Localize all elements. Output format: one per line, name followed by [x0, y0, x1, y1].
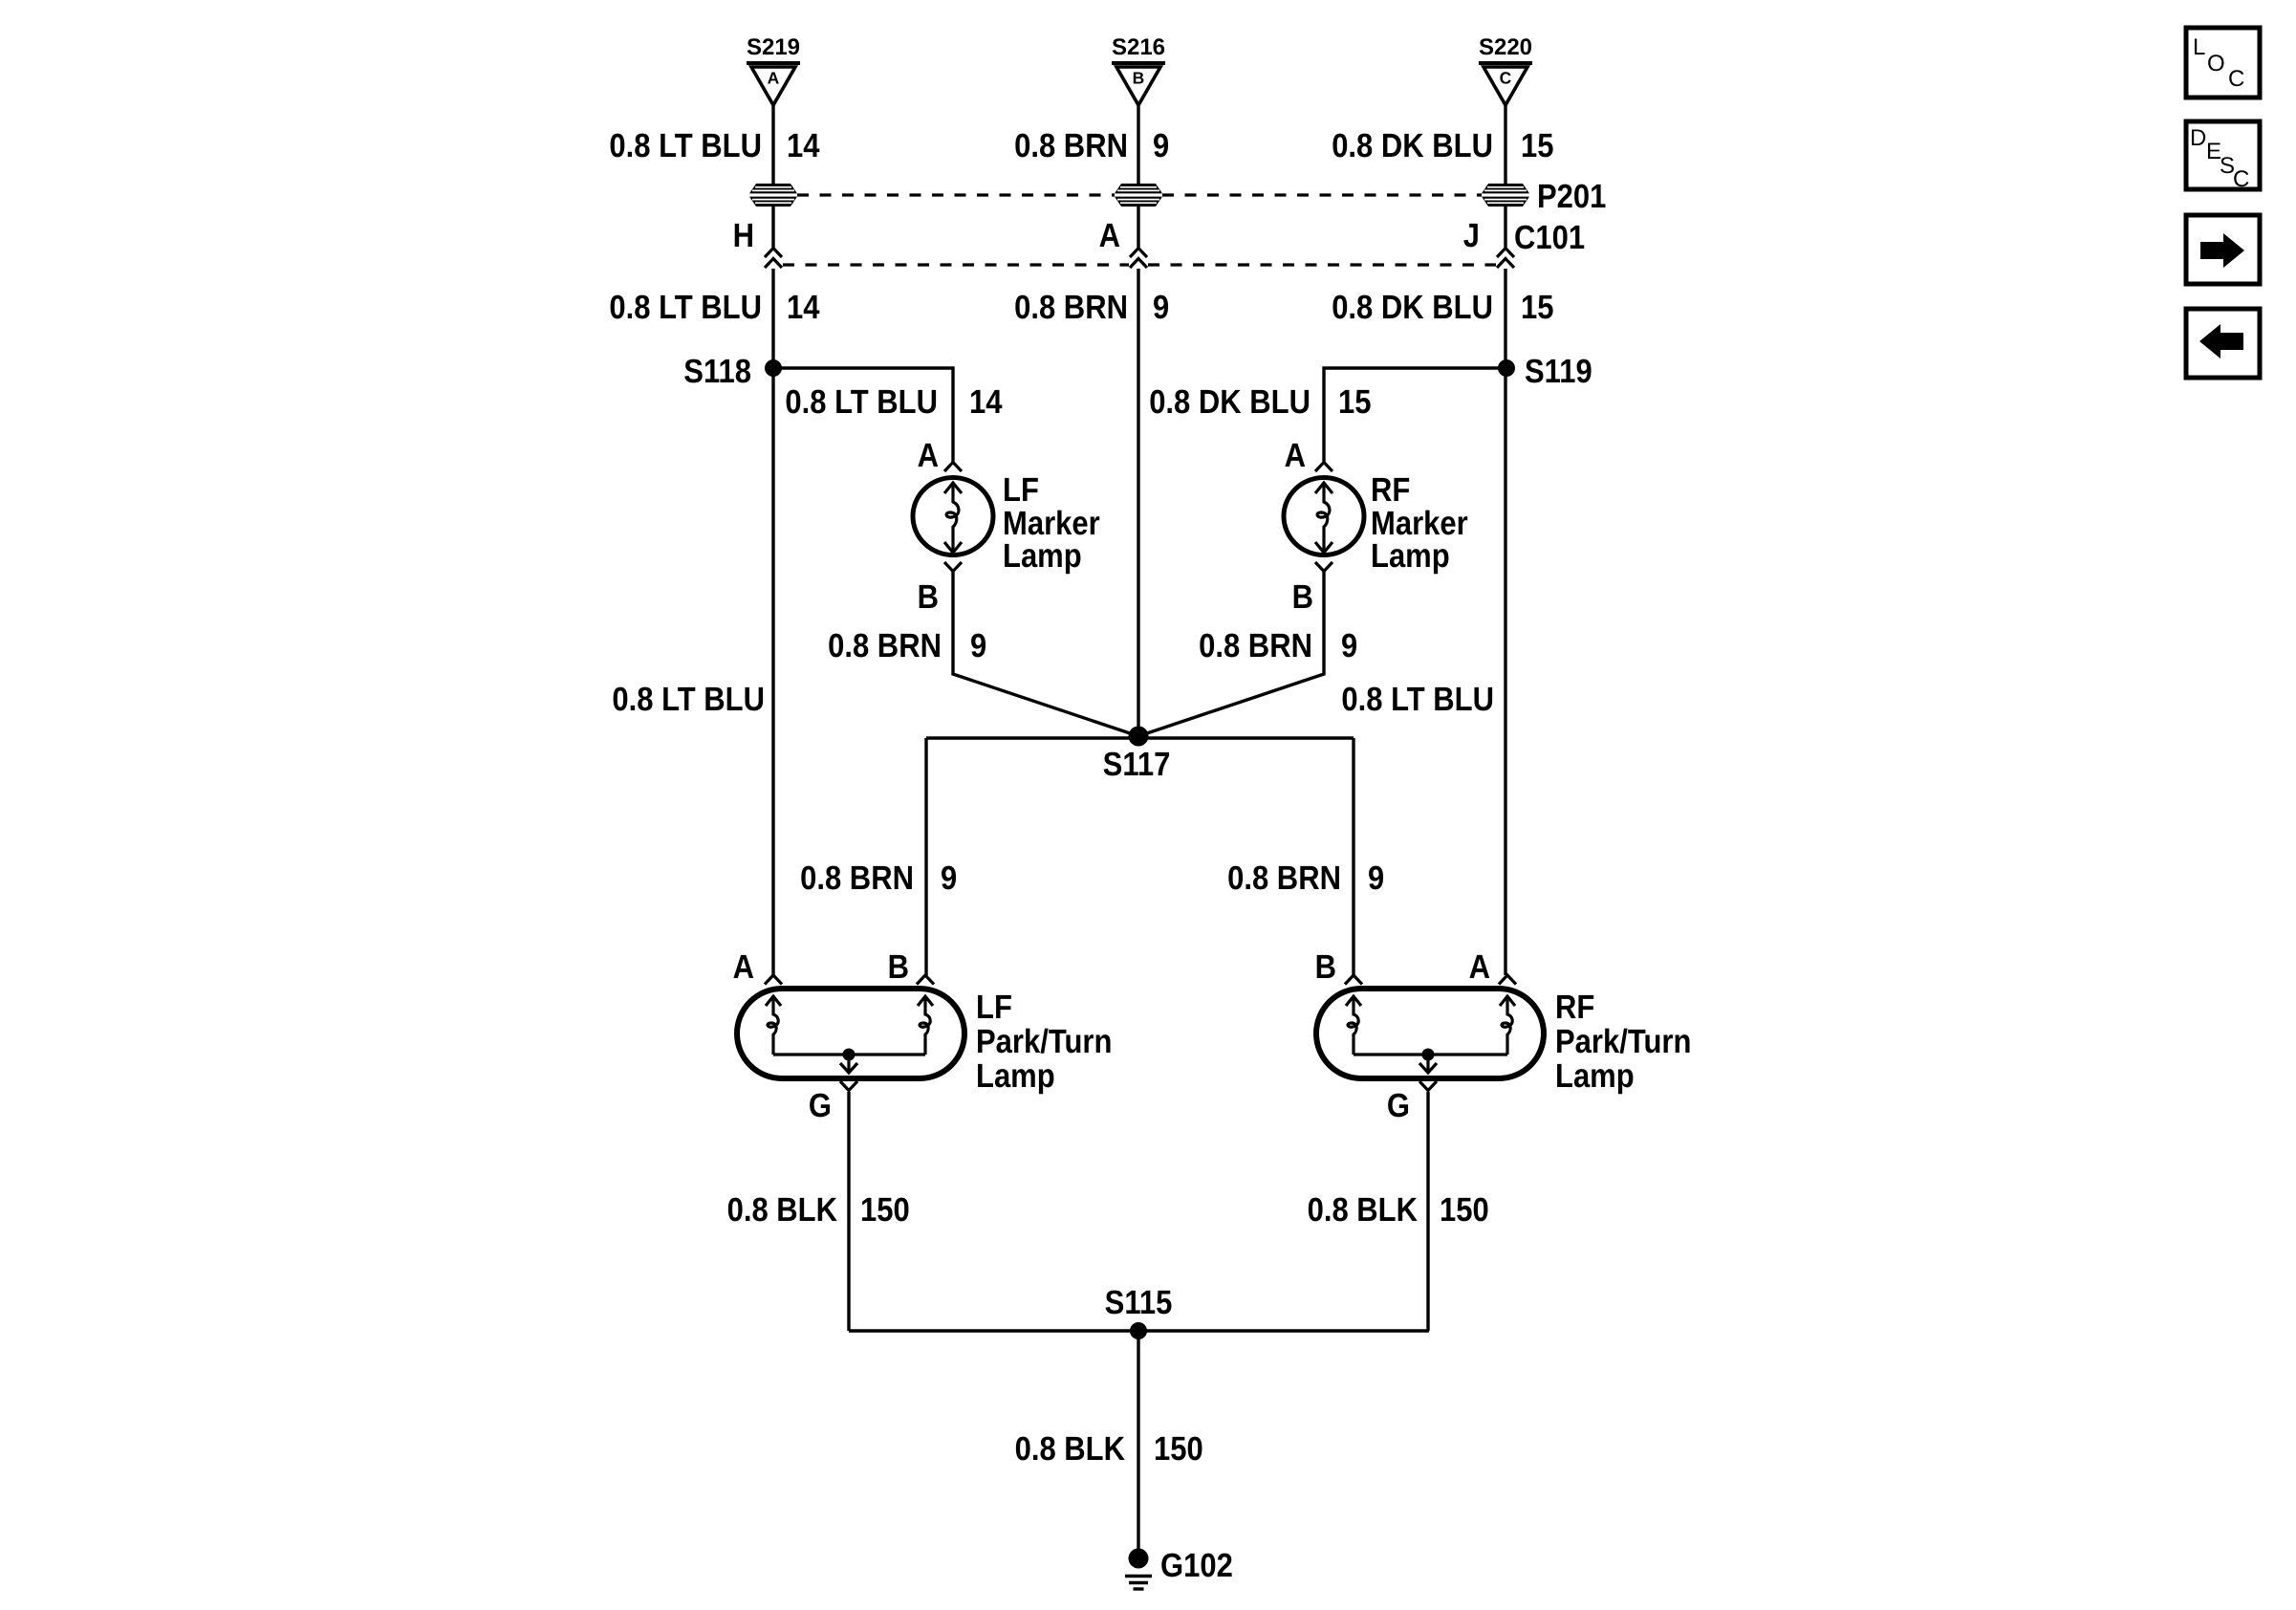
svg-text:15: 15: [1521, 289, 1554, 326]
svg-text:Park/Turn: Park/Turn: [976, 1023, 1112, 1060]
svg-text:P201: P201: [1537, 178, 1606, 215]
svg-text:RF: RF: [1371, 471, 1410, 509]
svg-text:150: 150: [1154, 1430, 1203, 1468]
svg-text:Park/Turn: Park/Turn: [1555, 1023, 1691, 1060]
svg-text:0.8 LT BLU: 0.8 LT BLU: [612, 681, 765, 718]
svg-text:0.8 BRN: 0.8 BRN: [1227, 859, 1341, 897]
svg-text:0.8 BRN: 0.8 BRN: [1014, 127, 1128, 164]
svg-text:S119: S119: [1525, 353, 1592, 390]
svg-text:B: B: [1315, 948, 1336, 986]
svg-text:0.8 BLK: 0.8 BLK: [1308, 1191, 1418, 1229]
svg-text:0.8 LT BLU: 0.8 LT BLU: [609, 127, 762, 164]
svg-text:Lamp: Lamp: [1371, 537, 1450, 575]
svg-text:15: 15: [1338, 383, 1372, 421]
svg-text:G102: G102: [1160, 1547, 1233, 1584]
svg-text:15: 15: [1521, 127, 1554, 164]
svg-text:14: 14: [787, 289, 820, 326]
svg-text:14: 14: [787, 127, 820, 164]
svg-text:H: H: [733, 217, 754, 254]
svg-text:A: A: [1099, 217, 1120, 254]
svg-text:L: L: [2193, 34, 2205, 60]
svg-text:Lamp: Lamp: [976, 1057, 1055, 1095]
svg-text:0.8 BRN: 0.8 BRN: [828, 627, 942, 664]
svg-text:0.8 LT BLU: 0.8 LT BLU: [785, 383, 938, 421]
svg-text:0.8 DK BLU: 0.8 DK BLU: [1332, 127, 1493, 164]
svg-text:S118: S118: [683, 353, 751, 390]
svg-text:RF: RF: [1555, 989, 1594, 1026]
svg-text:C: C: [1500, 69, 1512, 88]
svg-text:Lamp: Lamp: [1003, 537, 1082, 575]
svg-text:LF: LF: [976, 989, 1012, 1026]
svg-text:O: O: [2207, 51, 2225, 76]
svg-text:0.8 LT BLU: 0.8 LT BLU: [609, 289, 762, 326]
svg-text:9: 9: [1153, 289, 1169, 326]
svg-text:S219: S219: [747, 34, 800, 60]
svg-text:150: 150: [860, 1191, 910, 1229]
svg-text:B: B: [1292, 578, 1313, 616]
svg-text:A: A: [918, 437, 939, 474]
svg-text:150: 150: [1440, 1191, 1489, 1229]
svg-text:0.8 BRN: 0.8 BRN: [1014, 289, 1128, 326]
svg-text:0.8 BRN: 0.8 BRN: [800, 859, 914, 897]
svg-text:A: A: [1285, 437, 1306, 474]
svg-text:S220: S220: [1479, 34, 1532, 60]
svg-text:A: A: [1469, 948, 1490, 986]
svg-text:0.8 BLK: 0.8 BLK: [1015, 1430, 1125, 1468]
svg-text:A: A: [768, 69, 780, 88]
svg-text:C: C: [2233, 166, 2249, 192]
svg-text:LF: LF: [1003, 471, 1039, 509]
svg-text:S216: S216: [1112, 34, 1165, 60]
svg-text:9: 9: [970, 627, 986, 664]
svg-text:C: C: [2228, 66, 2244, 92]
svg-text:0.8 DK BLU: 0.8 DK BLU: [1149, 383, 1310, 421]
svg-text:S115: S115: [1105, 1284, 1173, 1321]
svg-text:0.8 LT BLU: 0.8 LT BLU: [1341, 681, 1494, 718]
svg-text:9: 9: [1368, 859, 1384, 897]
svg-text:0.8 BLK: 0.8 BLK: [727, 1191, 837, 1229]
svg-text:G: G: [1387, 1087, 1410, 1124]
svg-text:B: B: [918, 578, 939, 616]
svg-text:D: D: [2190, 125, 2206, 151]
svg-text:A: A: [733, 948, 754, 986]
svg-text:9: 9: [941, 859, 957, 897]
svg-text:9: 9: [1153, 127, 1169, 164]
svg-text:G: G: [809, 1087, 832, 1124]
svg-text:B: B: [1133, 69, 1145, 88]
svg-text:S117: S117: [1103, 746, 1171, 783]
svg-text:0.8 DK BLU: 0.8 DK BLU: [1332, 289, 1493, 326]
svg-text:14: 14: [969, 383, 1003, 421]
svg-text:9: 9: [1341, 627, 1357, 664]
svg-text:J: J: [1463, 217, 1480, 254]
svg-text:C101: C101: [1514, 219, 1585, 256]
svg-text:Lamp: Lamp: [1555, 1057, 1635, 1095]
svg-text:0.8 BRN: 0.8 BRN: [1199, 627, 1312, 664]
svg-text:B: B: [888, 948, 909, 986]
